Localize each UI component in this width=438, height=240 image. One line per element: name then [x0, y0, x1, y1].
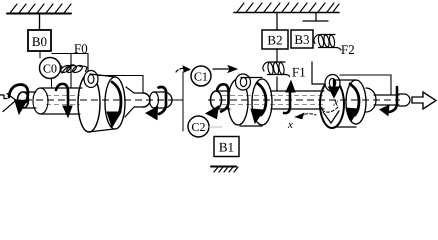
piece2 body	[154, 92, 164, 108]
thin shaft	[374, 95, 399, 105]
ground under B1	[211, 166, 236, 168]
arrow above right assembly	[213, 68, 236, 70]
box B3	[291, 30, 313, 48]
rotation arrow thin shaft	[389, 87, 397, 112]
rotation arrow right stub	[217, 84, 229, 111]
roller1 marker	[236, 74, 251, 90]
label x upper	[333, 100, 338, 105]
label B3	[295, 35, 309, 44]
label B1	[219, 143, 233, 152]
shaft mid section	[271, 91, 324, 109]
bracket F0 frame	[52, 54, 143, 94]
bracket rectangle	[340, 75, 391, 95]
pulley marker ellipse	[84, 71, 98, 88]
anchor bar	[303, 13, 328, 22]
label B2	[268, 36, 282, 45]
left stub end ellipse	[18, 92, 29, 108]
clutch C2	[188, 116, 209, 137]
arrow down on marker	[333, 80, 335, 88]
x arrow upper	[322, 107, 338, 112]
rotation arrow pulley	[112, 82, 121, 117]
rotation arrow roller2	[350, 84, 359, 115]
right stub ellipse	[211, 91, 222, 109]
label F0	[74, 44, 87, 53]
wire B2 to F1	[276, 49, 278, 62]
clutch C0	[40, 58, 61, 79]
centerline right shaft	[208, 99, 400, 101]
right shaft lines	[216, 91, 230, 109]
wire piece2 to frame	[174, 99, 183, 101]
end cap	[399, 94, 410, 106]
label x lower	[288, 123, 293, 128]
label C0	[43, 65, 56, 73]
wire C2 right	[209, 126, 222, 128]
cylinder body	[41, 88, 82, 114]
centerline left shaft	[14, 99, 178, 101]
ceiling left	[7, 13, 71, 15]
bore dashed lines right shaft	[222, 96, 324, 105]
dome cap	[366, 88, 376, 112]
spring F1	[263, 62, 290, 77]
roller2 left ellipse	[320, 80, 344, 128]
stub lines	[23, 92, 36, 108]
piece2 ellipse	[150, 92, 159, 108]
pulley left ellipse	[78, 74, 100, 132]
cylinder left ellipse	[33, 88, 48, 114]
open arrow in (left)	[0, 94, 16, 112]
wire F1 to shaft	[276, 77, 278, 91]
x arrow lower	[300, 114, 316, 116]
box B1	[214, 137, 239, 157]
box B2	[262, 30, 288, 49]
ceiling right	[234, 12, 339, 14]
dashed arrow before C1	[176, 68, 184, 72]
spring F0 coil	[60, 64, 87, 74]
roller1 left ellipse	[228, 79, 248, 125]
label C1	[194, 73, 207, 81]
roller1 body	[240, 78, 262, 127]
rotation arrow roller1	[257, 83, 266, 115]
wire ceiling to B2	[276, 13, 278, 31]
bore dashed lines left shaft	[46, 96, 80, 105]
roller2 body	[334, 80, 356, 127]
cone	[125, 87, 134, 117]
piece2 cap	[164, 92, 172, 108]
rotation arrow piece2	[159, 87, 167, 114]
label B0	[32, 37, 46, 46]
wire C0 to shaft	[51, 79, 53, 89]
pulley body	[88, 74, 116, 132]
box B0	[28, 30, 51, 51]
pulley right ellipse	[105, 77, 125, 129]
label F1	[292, 68, 305, 77]
label C2	[192, 123, 205, 131]
roller1 right ellipse	[252, 79, 272, 125]
bracket right sleeve	[312, 62, 331, 84]
roller2 marker	[325, 75, 340, 92]
label F2	[341, 45, 354, 54]
frame line C1C2	[182, 72, 184, 131]
stub1	[134, 93, 143, 107]
rotation arrow mid head-up	[284, 92, 290, 113]
roller2 right ellipse	[346, 80, 366, 124]
clutch C1	[191, 66, 211, 86]
spring F2	[314, 35, 341, 51]
rotation arrow left end	[9, 85, 28, 103]
rotation arrow mid shaft	[56, 84, 68, 108]
open arrow out (right)	[412, 92, 436, 109]
wire B0 to C0	[39, 51, 41, 58]
wire ceiling to B0	[39, 14, 41, 31]
